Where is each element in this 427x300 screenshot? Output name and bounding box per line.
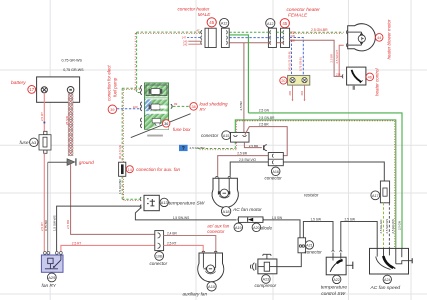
wires A12 to 45 FEMALE xyxy=(276,31,284,33)
wire A15 to A16 2,5 BR xyxy=(245,127,287,156)
svg-text:AC fan speed: AC fan speed xyxy=(370,285,401,291)
svg-text:A18: A18 xyxy=(223,209,231,214)
svg-text:2,5 BR: 2,5 BR xyxy=(329,54,333,63)
svg-text:2,5 GN: 2,5 GN xyxy=(397,221,401,230)
svg-text:2,5 GN-BR: 2,5 GN-BR xyxy=(259,116,275,120)
conector A15 xyxy=(231,132,250,142)
svg-text:39: 39 xyxy=(110,108,114,112)
conector A16 xyxy=(268,153,283,166)
svg-text:2,5 BR: 2,5 BR xyxy=(239,100,243,110)
svg-text:heater blower motor: heater blower motor xyxy=(386,19,391,60)
svg-text:conector: conector xyxy=(305,249,323,254)
svg-text:0,75 GR-WS: 0,75 GR-WS xyxy=(62,59,83,63)
svg-text:2,5 BR: 2,5 BR xyxy=(66,219,70,229)
svg-text:0,75 BR: 0,75 BR xyxy=(44,219,48,231)
svg-text:conector heater: conector heater xyxy=(287,7,321,13)
wire 45F brown to heater control xyxy=(290,40,344,76)
svg-text:45: 45 xyxy=(282,21,287,26)
svg-text:1,5 SW: 1,5 SW xyxy=(311,218,321,222)
svg-text:25 SW: 25 SW xyxy=(65,116,69,125)
svg-text:RY: RY xyxy=(200,107,207,112)
svg-text:239: 239 xyxy=(291,34,296,38)
battery 17 xyxy=(11,77,80,102)
svg-text:A23: A23 xyxy=(263,278,270,282)
svg-text:conector: conector xyxy=(265,176,283,181)
wire 45F to heater motor 2,5 GN-BR xyxy=(290,31,344,33)
wires A17 to A24 xyxy=(383,203,385,249)
svg-text:20: 20 xyxy=(281,79,285,83)
svg-text:2,5 BR: 2,5 BR xyxy=(237,152,247,156)
svg-text:1,5 SW-WS: 1,5 SW-WS xyxy=(173,216,190,220)
svg-text:2,5 BR: 2,5 BR xyxy=(249,144,259,148)
svg-text:2,5 SW: 2,5 SW xyxy=(345,218,355,222)
svg-text:A24: A24 xyxy=(384,278,391,282)
svg-text:2,5 SW-WS: 2,5 SW-WS xyxy=(385,219,389,234)
svg-text:243 /0,75 GR-BL: 243 /0,75 GR-BL xyxy=(288,50,292,71)
wire heater connector to fuse box green dashed xyxy=(122,32,202,92)
svg-text:temperature SW: temperature SW xyxy=(169,201,205,207)
svg-text:heater control: heater control xyxy=(375,67,380,96)
fuse box 36 xyxy=(131,83,191,138)
chassis symbol xyxy=(263,145,265,150)
svg-text:2,5 GN-BR: 2,5 GN-BR xyxy=(311,28,328,32)
svg-text:ac/ aux fan: ac/ aux fan xyxy=(207,224,230,229)
wire AC fan motor to A16 2,5 SW-VIO xyxy=(230,162,268,176)
svg-text:A16: A16 xyxy=(272,170,279,174)
svg-text:17: 17 xyxy=(29,87,34,92)
svg-text:auxiliary fan: auxiliary fan xyxy=(183,291,208,296)
svg-text:2,4 BR: 2,4 BR xyxy=(167,232,177,236)
svg-text:fuse box: fuse box xyxy=(173,127,191,132)
svg-text:fuse: fuse xyxy=(20,140,29,146)
svg-text:2,5 BR: 2,5 BR xyxy=(259,122,269,126)
wires A12 to A12 xyxy=(229,31,270,33)
fuse A3 xyxy=(39,131,51,153)
svg-text:fan RY: fan RY xyxy=(42,283,57,289)
wire 1,5 GN-BR vertical to temp SW xyxy=(122,88,141,199)
svg-text:MALE: MALE xyxy=(198,12,211,17)
wire A21 to compressor xyxy=(277,253,301,267)
svg-text:conection for aux. fan: conection for aux. fan xyxy=(136,167,180,172)
wire A15 to unknown green dashed xyxy=(198,142,236,149)
wire fuel pump blue dashed xyxy=(117,108,140,110)
compressor A23 xyxy=(250,254,276,274)
svg-text:2,5 GN: 2,5 GN xyxy=(259,109,270,113)
ground symbol xyxy=(48,158,94,166)
svg-text:1,5 SW-WS: 1,5 SW-WS xyxy=(52,215,56,231)
green loop outer 2,5 GN to A24 xyxy=(248,113,402,249)
svg-text:A21: A21 xyxy=(306,244,313,248)
svg-text:AC fan motor: AC fan motor xyxy=(232,207,262,213)
svg-text:battery: battery xyxy=(11,80,26,86)
svg-text:conector: conector xyxy=(207,229,225,234)
svg-text:2,5 SW-VIO: 2,5 SW-VIO xyxy=(239,158,256,162)
wire 10B to aux fan 2,4 BR xyxy=(164,236,216,253)
svg-text:ground: ground xyxy=(79,160,94,166)
conection for aux fan xyxy=(119,162,181,176)
svg-text:0,75 GR-BL: 0,75 GR-BL xyxy=(298,56,302,71)
wire 2,5 BR from A12 down to A15 xyxy=(243,43,245,136)
battery minus terminal xyxy=(67,87,74,94)
wire heater motor lower to heater control xyxy=(339,45,344,76)
ground braid strap from battery minus xyxy=(68,94,73,156)
svg-text:conector: conector xyxy=(150,261,168,266)
svg-text:2,5 RT: 2,5 RT xyxy=(167,241,177,245)
wire A22 to A24 2,5 SW xyxy=(341,222,377,251)
relay A29 fan RY xyxy=(41,252,63,273)
wire relay to 10B 2,5 RT xyxy=(61,245,155,252)
temperature control SW A22 xyxy=(326,251,353,275)
svg-text:1,5 SW: 1,5 SW xyxy=(272,216,282,220)
junction tick above fuse xyxy=(44,122,46,124)
svg-text:?: ? xyxy=(182,146,185,152)
wire A15 chassis 2,5 BR xyxy=(244,142,261,148)
svg-text:A3: A3 xyxy=(31,140,37,145)
wire temperature SW to relay 1,5 SW-WS xyxy=(57,206,142,252)
svg-text:99: 99 xyxy=(174,102,178,106)
svg-text:10B: 10B xyxy=(156,255,163,259)
AC fan speed A24 xyxy=(370,248,413,274)
conector A21 xyxy=(298,238,306,253)
svg-text:0,75 GR-WS: 0,75 GR-WS xyxy=(63,68,84,72)
load shedding RY 38 xyxy=(173,105,190,107)
svg-text:90 /1,5 GN: 90 /1,5 GN xyxy=(118,145,122,159)
wire fuse to relay 2,5 RT xyxy=(43,153,45,252)
svg-text:2,5 GN-WS: 2,5 GN-WS xyxy=(391,219,395,233)
diode A19 A20 xyxy=(238,217,264,223)
svg-text:resistor: resistor xyxy=(304,193,319,198)
wire battery plus to fuse 2,5 RT xyxy=(43,93,45,131)
wire 45F blue dashed to solder joint xyxy=(290,38,304,76)
svg-text:38: 38 xyxy=(191,105,195,109)
wire 2,5 GN from A12 down xyxy=(229,35,248,113)
heater blower motor 44 xyxy=(346,24,375,51)
svg-text:A19: A19 xyxy=(235,226,242,230)
wire A16 to A17 2,5 SW xyxy=(283,162,384,181)
circle 36 fuse box xyxy=(163,120,170,127)
svg-text:14: 14 xyxy=(128,168,132,172)
svg-text:A15: A15 xyxy=(223,134,230,138)
svg-text:A12: A12 xyxy=(267,22,274,26)
svg-text:A12: A12 xyxy=(221,22,228,26)
svg-text:36: 36 xyxy=(164,122,168,126)
svg-text:244: 244 xyxy=(300,91,304,96)
conection for elect fuel pump 39 xyxy=(108,105,117,114)
svg-text:147: 147 xyxy=(182,36,187,40)
connector A12 right xyxy=(268,28,276,47)
auxiliary fan A10 motor xyxy=(198,251,224,282)
svg-text:temperature: temperature xyxy=(321,285,348,291)
svg-text:A13: A13 xyxy=(161,200,168,205)
svg-text:2,5 SW-RT: 2,5 SW-RT xyxy=(335,49,339,63)
svg-text:A10: A10 xyxy=(208,284,216,289)
temperature SW A13 xyxy=(140,195,159,210)
svg-text:2,5 GE-GN: 2,5 GE-GN xyxy=(379,220,383,234)
red dotted highlight along inner green xyxy=(124,33,395,248)
svg-text:242: 242 xyxy=(183,43,188,47)
wire temp SW to diode 1,5 SW-WS xyxy=(135,207,236,220)
AC fan motor A18 xyxy=(212,176,238,207)
green loop inner from A15 xyxy=(235,120,395,249)
wire AC fan motor to A16 2,5 BR xyxy=(218,156,269,176)
svg-text:245: 245 xyxy=(288,91,292,96)
wire diode to A21 1,5 SW xyxy=(263,220,300,238)
svg-text:A22: A22 xyxy=(333,278,340,282)
svg-text:diode: diode xyxy=(261,226,273,231)
connector A12 left xyxy=(221,28,229,47)
svg-text:45: 45 xyxy=(209,20,214,25)
svg-text:conection for elect: conection for elect xyxy=(107,65,112,101)
unknown connection marker xyxy=(179,145,188,151)
svg-text:A20: A20 xyxy=(253,226,260,230)
wire A21 to A22 1,5 SW xyxy=(303,222,333,251)
fuse box left pin cups xyxy=(141,85,173,127)
svg-text:46: 46 xyxy=(368,76,372,80)
wire ground to 10B connector 2,5 BR xyxy=(71,164,155,234)
svg-text:load shedding: load shedding xyxy=(200,102,229,107)
svg-text:1,5 GN-BR: 1,5 GN-BR xyxy=(118,178,122,194)
svg-text:A29: A29 xyxy=(48,275,56,280)
svg-text:2,5 RT: 2,5 RT xyxy=(72,241,82,245)
wires below solder joint xyxy=(293,85,305,99)
svg-text:100: 100 xyxy=(133,105,138,109)
svg-text:44: 44 xyxy=(377,36,381,40)
wire ground to relay 0,75 BR xyxy=(47,162,49,252)
conector A17 xyxy=(380,181,389,203)
connector 10B xyxy=(155,231,164,251)
svg-text:238: 238 xyxy=(291,39,296,43)
solder joint 20 xyxy=(288,75,310,85)
svg-text:conector heater: conector heater xyxy=(178,6,210,11)
heater control 46 xyxy=(342,67,366,90)
svg-text:compresor: compresor xyxy=(255,283,277,288)
svg-text:238: 238 xyxy=(336,73,341,77)
wire 10B to aux fan 2,5 RT xyxy=(164,245,204,252)
svg-text:FEMALE: FEMALE xyxy=(288,13,308,19)
svg-text:control SW: control SW xyxy=(321,291,345,297)
svg-text:A17: A17 xyxy=(372,194,379,198)
svg-text:conector: conector xyxy=(201,133,219,138)
svg-text:fuel pump: fuel pump xyxy=(112,77,117,97)
battery plus terminal xyxy=(41,87,47,93)
svg-text:2,5 RT: 2,5 RT xyxy=(40,112,44,121)
